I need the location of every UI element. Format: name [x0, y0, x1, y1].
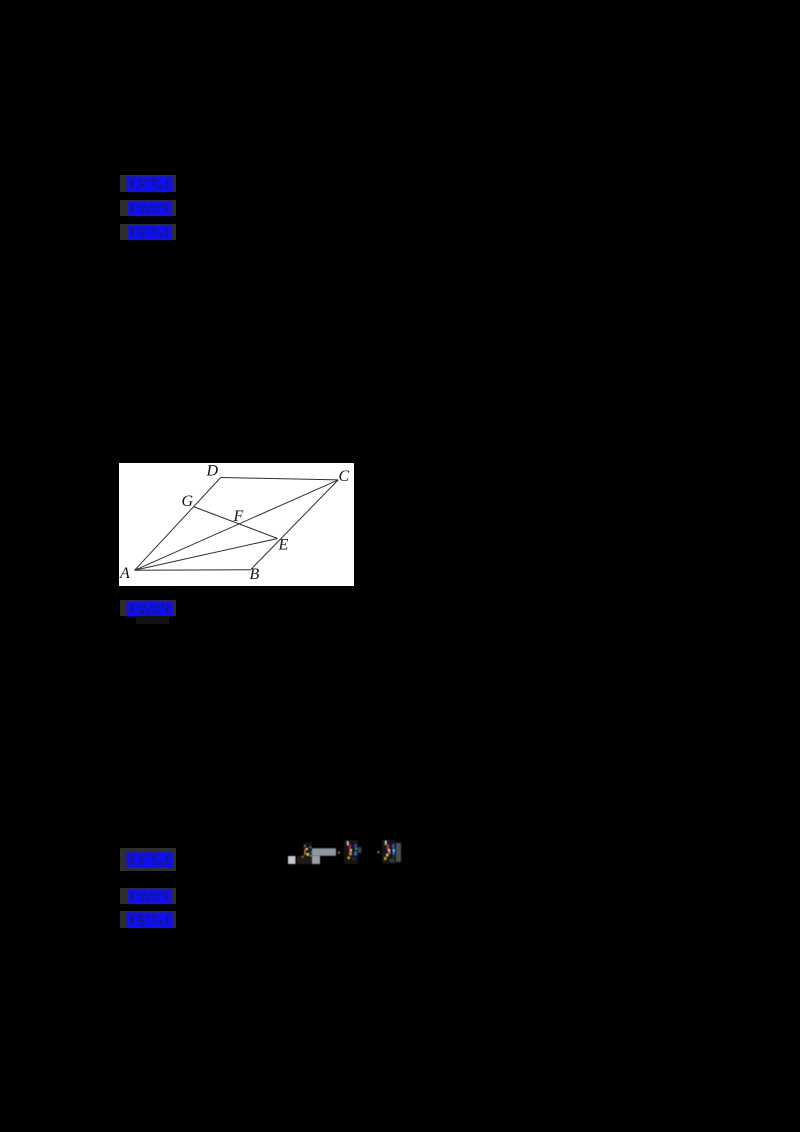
figure white box [119, 463, 354, 586]
label text 2 [126, 201, 173, 216]
answer line band 5 [120, 848, 176, 871]
equation fragment cluster [285, 838, 405, 866]
faint remnant under label 4 [136, 616, 169, 624]
comma dot 1 [338, 852, 340, 854]
label band 2 [120, 200, 176, 216]
equals/gray bar [312, 848, 336, 856]
svg-text:F: F [233, 508, 244, 525]
svg-text:A: A [119, 565, 130, 582]
edge A-B [135, 569, 251, 572]
segment G-E [194, 507, 278, 539]
label text 4 [126, 601, 173, 617]
edge C-D [221, 478, 339, 480]
label text 3 [126, 225, 173, 240]
svg-text:D: D [206, 463, 219, 480]
label band 3 [120, 224, 176, 240]
glyph cluster 3 [382, 840, 396, 864]
label text 6 [126, 889, 173, 904]
glyph cluster 1 [304, 843, 313, 857]
light gray square [288, 856, 296, 864]
svg-text:G: G [182, 493, 194, 510]
label text 7 [126, 912, 173, 928]
edge D-A [135, 478, 221, 571]
svg-text:C: C [339, 468, 350, 485]
label band 4 [120, 600, 176, 616]
label text 1 [126, 176, 173, 192]
edge B-C [251, 480, 339, 570]
label band 1 [120, 175, 176, 192]
geometry figure: parallelogram ABCD with E on BC, G on AD, cevians [119, 463, 354, 586]
label band 6 [120, 888, 176, 904]
glyph cluster 2 [344, 840, 358, 864]
svg-text:E: E [278, 537, 289, 554]
diagonal A-C [135, 480, 339, 570]
label band 7 [120, 911, 176, 928]
label text 5 [126, 852, 173, 868]
svg-text:B: B [250, 566, 260, 583]
cevian A-E [135, 539, 278, 571]
comma dot 2 [378, 851, 380, 853]
